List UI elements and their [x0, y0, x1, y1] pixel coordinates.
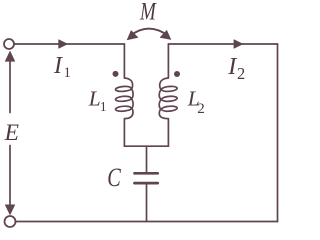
terminal bottom-left — [5, 216, 16, 227]
wire top-left horizontal — [14, 43, 124, 45]
svg-text:E: E — [4, 120, 19, 146]
wire bottom rail — [16, 221, 278, 223]
dot mark L2 polarity — [174, 71, 180, 77]
svg-text:2: 2 — [197, 101, 205, 117]
svg-text:2: 2 — [237, 64, 245, 83]
arrowhead M arc left end — [127, 31, 138, 40]
inductor L1 coil — [116, 44, 134, 146]
wire junction bar under coils — [124, 145, 168, 147]
wire left upper segment — [9, 60, 11, 113]
arrowhead I1 current direction — [59, 40, 68, 49]
svg-text:C: C — [107, 163, 121, 192]
svg-text:L: L — [88, 87, 101, 111]
wire right rail — [277, 44, 279, 222]
arrowhead down toward bottom terminal — [5, 205, 15, 215]
arrowhead M arc right end — [160, 30, 171, 39]
capacitor C bottom plate — [135, 182, 158, 185]
svg-text:M: M — [139, 0, 156, 26]
svg-text:1: 1 — [64, 65, 71, 81]
svg-text:I: I — [227, 54, 237, 80]
wire left lower segment — [9, 146, 11, 206]
arrowhead I2 current direction — [234, 40, 243, 49]
dot mark L1 polarity — [113, 71, 119, 77]
capacitor C top plate — [135, 172, 158, 175]
mutual inductance arc M — [130, 29, 168, 36]
wire capacitor bottom stem — [146, 184, 148, 221]
inductor L2 coil — [159, 44, 177, 146]
svg-text:1: 1 — [100, 99, 107, 114]
svg-text:I: I — [53, 53, 63, 79]
wire top-right horizontal — [168, 43, 277, 45]
arrowhead up toward top terminal — [5, 51, 15, 61]
terminal top-left — [4, 39, 14, 49]
wire capacitor top stem — [146, 146, 148, 172]
